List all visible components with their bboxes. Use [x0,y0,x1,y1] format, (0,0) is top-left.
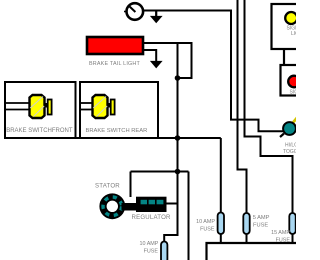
svg-text:HI/LO: HI/LO [285,143,296,149]
svg-text:5 AMP: 5 AMP [253,215,270,221]
wire to regulator top [130,172,132,198]
signal lamp box upper [272,4,304,49]
svg-text:LIGHT: LIGHT [291,31,296,37]
brake tail light LP1 [87,37,143,54]
ground G1 arrow [150,16,163,23]
fuse F2 5A [243,213,249,234]
wire regulator right stub [167,203,178,205]
node lower junction [175,169,181,175]
signal light L1 yellow [285,12,297,24]
brake switch rear SW3 [93,95,115,118]
fuse F4 10A bottom [161,242,167,260]
signal lamp box lower [281,65,304,96]
wire switch front leads [5,102,30,104]
svg-text:FUSE: FUSE [253,222,268,228]
svg-text:SIGNAL: SIGNAL [290,89,297,95]
svg-text:FUSE: FUSE [200,227,215,233]
ground G2 arrow [150,61,163,69]
wire to bottom fuse F4 [164,235,177,242]
brake switch front SW2 [30,95,52,118]
svg-text:FUSE: FUSE [144,249,159,255]
svg-text:TOGGLE: TOGGLE [283,149,296,155]
svg-text:BRAKE SWITCH REAR: BRAKE SWITCH REAR [86,128,148,134]
svg-text:15 AMP: 15 AMP [271,230,290,236]
brake switch front box [5,82,76,138]
regulator U1 [136,197,167,212]
svg-text:BRAKE SWITCHFRONT: BRAKE SWITCHFRONT [6,128,73,134]
wire ignition to right corner [144,11,285,132]
hi/lo toggle SW4 [280,117,298,138]
wire tail light upper stub with hook [144,43,192,78]
wire brake bus [4,137,221,139]
wire F1 bottom stub [220,234,222,244]
node hook junction [175,75,181,81]
stator M1 [103,197,136,216]
signal light L2 red [288,76,300,88]
fuse F3 15A [289,213,295,234]
fuse F1 10A [218,213,224,235]
wire bus corner down to fuse F1 [220,138,222,213]
ground G1 stem [155,11,157,17]
ignition switch SW1 [124,3,143,20]
node bus junction [175,135,181,141]
wire tail light lower stub [144,50,156,61]
wire junction horizontal [131,171,189,173]
svg-text:STATOR: STATOR [95,182,120,189]
svg-text:10 AMP: 10 AMP [196,219,215,225]
brake switch rear box [80,82,158,138]
wire between signal boxes [283,49,285,65]
wire east drop to bottom [188,172,190,260]
svg-text:BRAKE TAIL LIGHT: BRAKE TAIL LIGHT [89,61,141,67]
wire F2 bottom stub [246,234,248,244]
wire switch rear leads [80,102,93,104]
wire bottom bus [207,243,297,260]
wire line C from top [245,0,293,213]
wire F3 bottom stub [292,234,294,244]
svg-text:10 AMP: 10 AMP [140,241,159,247]
wire tail light vertical drop [177,43,179,236]
svg-text:REGULATOR: REGULATOR [132,214,172,221]
wire line B from top [238,0,247,213]
